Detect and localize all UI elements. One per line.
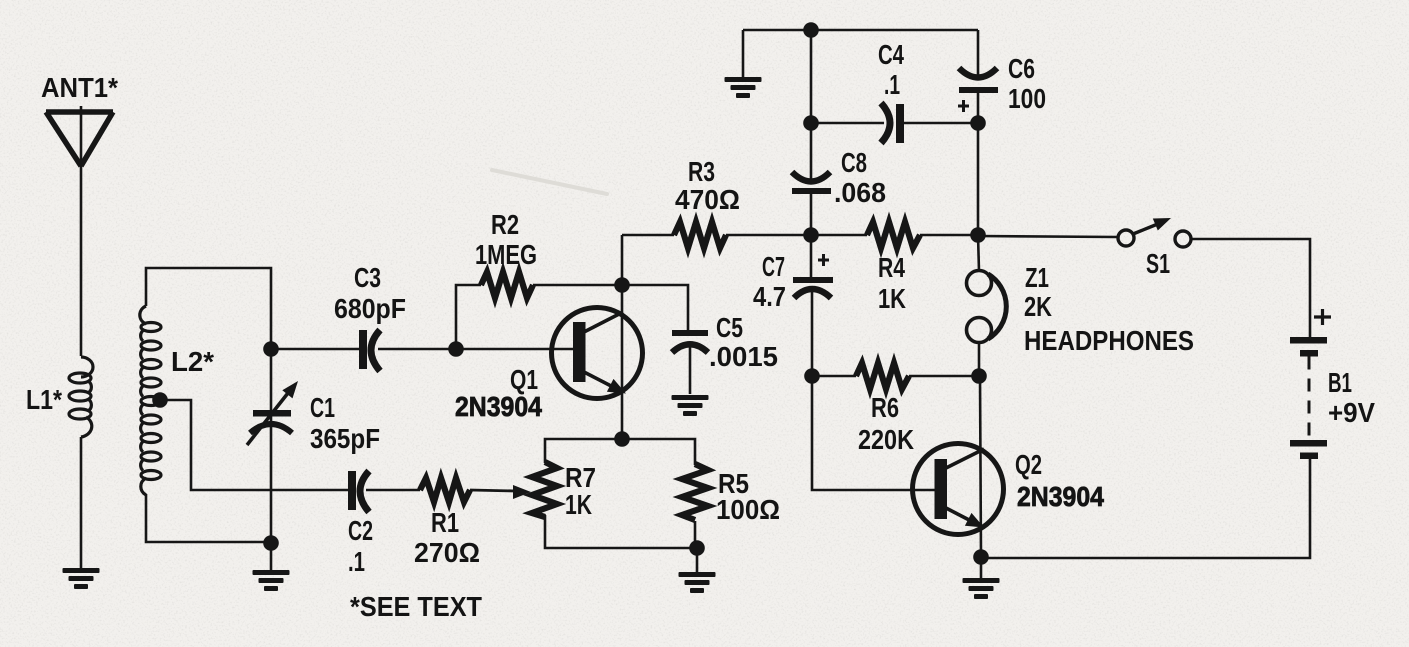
wire L2 tap to C2 <box>160 400 352 490</box>
resistor R6 <box>856 363 909 389</box>
switch S1 <box>1118 218 1191 247</box>
wire R6 to node M <box>909 375 979 378</box>
svg-text:R6: R6 <box>871 392 899 423</box>
scratch artifact <box>492 170 607 194</box>
ground under tank node B <box>253 570 290 591</box>
wire vertical x622: R3 riser, Q1 collector/emitter chord, node C <box>621 235 624 439</box>
node C Q1 emitter / R7 / R5 <box>614 431 630 447</box>
battery B1 <box>1290 309 1331 459</box>
wire node D to ground <box>696 548 699 572</box>
ground under C5 <box>672 395 709 416</box>
wire C5 to ground <box>689 347 692 394</box>
svg-text:C8: C8 <box>841 147 867 178</box>
node F R2 / R3 / Q1 collector <box>614 277 630 293</box>
wire L1 to ground <box>80 437 83 568</box>
capacitor C5 <box>672 330 708 353</box>
node E C3 / R2 / Q1 base <box>448 341 464 357</box>
inductor L1 <box>69 357 93 437</box>
svg-text:Q2: Q2 <box>1015 449 1042 480</box>
wire ground stub drop <box>742 30 745 77</box>
svg-text:100Ω: 100Ω <box>716 494 780 525</box>
wire S1 to battery top <box>1191 239 1310 337</box>
wire top rail: ground stub to C6 <box>743 29 978 32</box>
wire main rail node K to switch S1 <box>978 236 1118 237</box>
ground top-left stub <box>725 77 762 98</box>
svg-text:C7: C7 <box>762 251 785 282</box>
wire node E up to R2 <box>456 285 481 349</box>
wire node F to C5 <box>622 285 688 330</box>
wire node N to ground <box>980 557 983 578</box>
wire L2 bottom to node B <box>146 494 271 542</box>
svg-text:2K: 2K <box>1024 291 1052 322</box>
svg-text:HEADPHONES: HEADPHONES <box>1024 325 1194 356</box>
wire R4 right to node K <box>920 234 978 237</box>
resistor R5 <box>682 464 708 520</box>
svg-text:220K: 220K <box>858 424 914 455</box>
capacitor C7 with polarity <box>793 254 833 298</box>
svg-text:365pF: 365pF <box>310 423 380 454</box>
resistor R1 <box>420 478 470 502</box>
wire C3 to node E <box>378 348 456 351</box>
transistor Q2 2N3904 <box>913 444 1004 535</box>
transistor Q1 2N3904 <box>552 308 643 399</box>
svg-text:4.7: 4.7 <box>753 281 786 312</box>
wire R2 to node F <box>533 284 622 287</box>
svg-text:1MEG: 1MEG <box>475 239 537 270</box>
svg-text:.068: .068 <box>834 177 886 208</box>
svg-text:470Ω: 470Ω <box>675 184 740 215</box>
node L2 tap <box>152 392 168 408</box>
variable capacitor C1 <box>247 381 298 445</box>
svg-text:1K: 1K <box>565 489 592 520</box>
svg-text:Z1: Z1 <box>1025 262 1049 293</box>
wire R1 to R7 wiper arrow <box>470 490 516 491</box>
wire R7 R5 bottom rail to node D <box>545 515 697 548</box>
svg-text:C4: C4 <box>878 39 904 70</box>
wire battery bottom to bottom rail <box>981 459 1310 558</box>
wire node L to R6 <box>812 375 856 378</box>
svg-text:.1: .1 <box>884 69 900 100</box>
resistor R4 <box>867 222 920 248</box>
wire node B to ground <box>270 542 273 570</box>
capacitor C3 <box>359 330 380 371</box>
resistor R2 <box>481 272 533 298</box>
svg-text:1K: 1K <box>878 283 906 314</box>
svg-text:C5: C5 <box>716 312 743 343</box>
wire C6 bottom through node J to node K <box>977 93 980 235</box>
wire node I down through C8 to node G <box>810 30 813 182</box>
svg-text:L2*: L2* <box>171 346 214 377</box>
wire C6 top from rail <box>977 30 980 80</box>
wire R5 bottom lead <box>694 521 697 548</box>
node A junction tank top / C3 <box>263 341 279 357</box>
svg-text:S1: S1 <box>1146 248 1170 279</box>
node K main rail / C6 / Z1 <box>970 227 986 243</box>
svg-text:R1: R1 <box>431 507 459 538</box>
svg-text:+9V: +9V <box>1328 397 1375 428</box>
svg-text:270Ω: 270Ω <box>414 537 480 568</box>
resistor R3 <box>674 222 726 248</box>
svg-text:.1: .1 <box>348 546 365 577</box>
svg-text:2N3904: 2N3904 <box>455 391 542 422</box>
svg-text:2N3904: 2N3904 <box>1017 481 1104 512</box>
node N Q2 emitter / ground / battery return <box>973 549 989 565</box>
potentiometer R7 <box>532 462 557 517</box>
ground under Q2 <box>963 578 1000 599</box>
wire node G down to C7 <box>810 235 813 277</box>
svg-text:680pF: 680pF <box>334 293 406 324</box>
wire tank top: L2 top to node A <box>146 268 271 348</box>
node G main rail / C8 / C7 <box>803 227 819 243</box>
wire R7 R5 top rail with node C <box>545 439 695 465</box>
wire R3 left lead <box>622 234 674 237</box>
node J C4 / C6 <box>970 115 986 131</box>
wire R3 right to node G on main rail <box>726 234 867 237</box>
node L C7 / R6 / Q2 base <box>804 368 820 384</box>
wire node A down through C1 to node B <box>270 349 273 542</box>
inductor L2 with tap <box>140 306 161 495</box>
svg-text:C1: C1 <box>310 392 335 423</box>
ground under L1 <box>63 568 100 589</box>
wire C8 bottom to node G <box>810 194 813 235</box>
node I top rail junction <box>803 22 819 38</box>
svg-text:C6: C6 <box>1008 53 1035 84</box>
svg-text:C2: C2 <box>348 515 373 546</box>
capacitor C4 <box>881 103 904 143</box>
svg-text:C3: C3 <box>354 262 381 293</box>
capacitor C6 with polarity <box>958 68 998 112</box>
svg-text:L1*: L1* <box>26 384 62 415</box>
capacitor C8 <box>792 172 831 194</box>
wire node H to C4 <box>811 122 884 125</box>
node B tank bottom <box>263 535 279 551</box>
ground under R5 node <box>679 572 716 593</box>
svg-text:R4: R4 <box>878 252 905 283</box>
wire antenna lead-in ANT1 to L1 <box>80 166 83 356</box>
wire node E to Q1 base <box>456 348 575 351</box>
svg-text:R3: R3 <box>688 156 715 187</box>
wire node A to C3 <box>271 348 361 351</box>
wire C4 to node J <box>904 122 978 125</box>
svg-text:B1: B1 <box>1328 367 1352 398</box>
wire Z1 bottom to node M <box>978 342 981 376</box>
svg-text:*SEE TEXT: *SEE TEXT <box>350 591 482 622</box>
capacitor C2 <box>348 471 420 512</box>
svg-text:100: 100 <box>1008 83 1046 114</box>
wire C7 bottom to node L <box>811 291 814 376</box>
svg-text:ANT1*: ANT1* <box>41 72 118 103</box>
wire node K down to Z1 <box>978 235 979 271</box>
node H C8 / C4 <box>803 115 819 131</box>
svg-text:R2: R2 <box>491 209 519 240</box>
wire node L down and right to Q2 base <box>812 376 936 490</box>
node M R6 / Z1 / Q2 collector <box>971 368 987 384</box>
headphones Z1 <box>967 271 1007 343</box>
wire vertical x981: Q2 collector/emitter chord node M to node N <box>980 376 981 557</box>
node D R7 / R5 bottom / ground <box>689 540 705 556</box>
svg-text:.0015: .0015 <box>709 341 778 372</box>
antenna ANT1 <box>46 106 113 166</box>
